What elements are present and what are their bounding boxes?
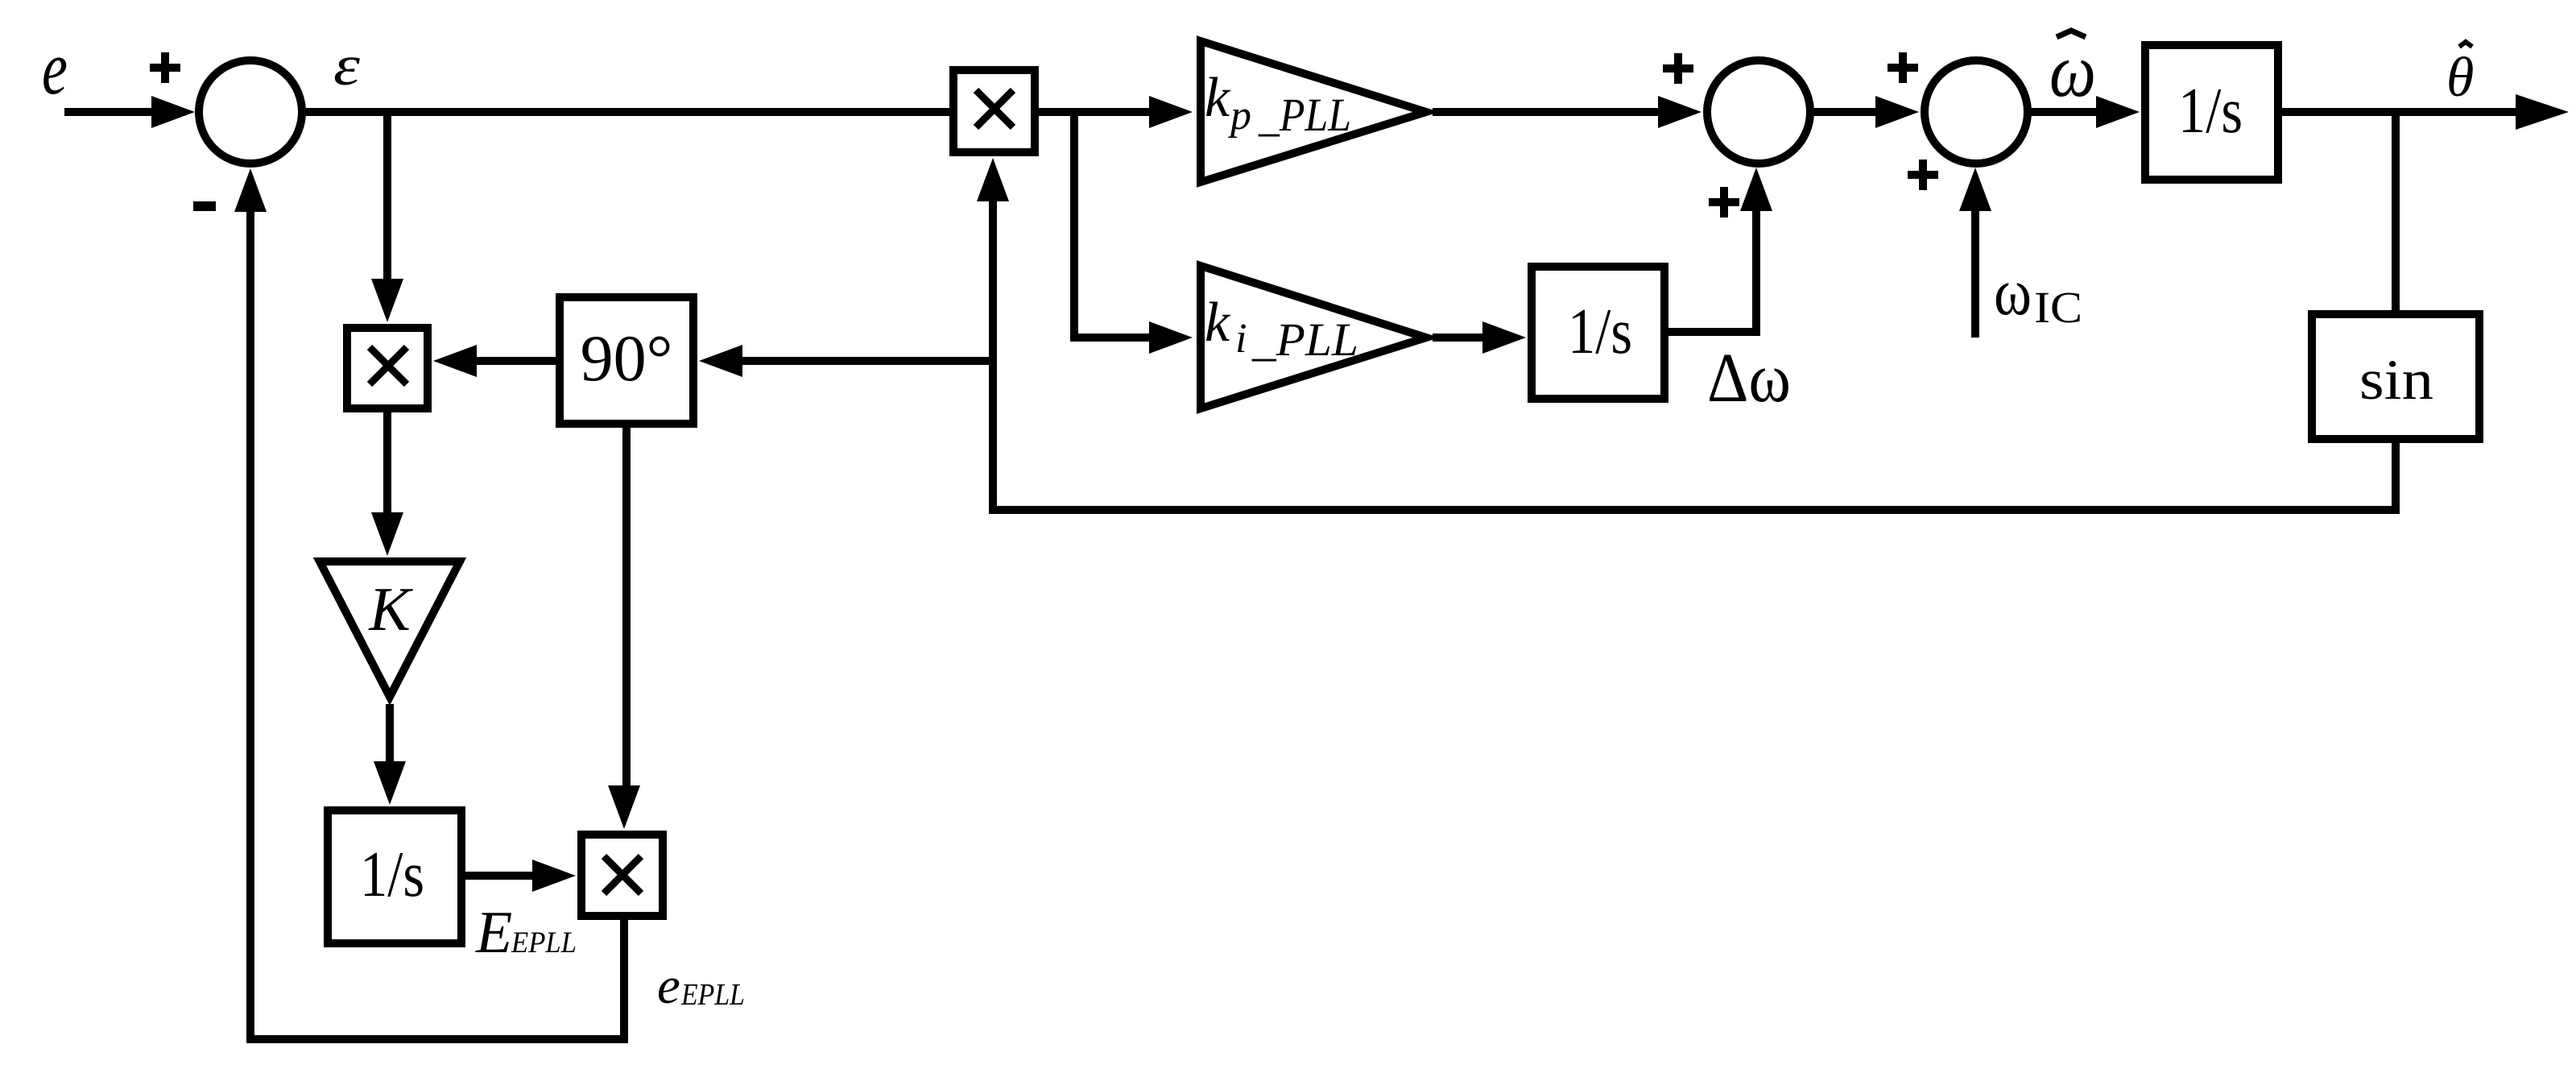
wire: I2 output up to S2 bottom [1667, 206, 1756, 332]
wire: epsilon branch down to multiplier M2 [383, 112, 391, 284]
wire: epsilon main line from S1 to multiplier M1 [302, 108, 953, 116]
svg-text:_PLL: _PLL [1251, 313, 1358, 366]
label: minus sign at S1 bottom input [193, 201, 216, 211]
multiplier M3 [581, 835, 663, 916]
label: plus sign at S1 top input [150, 52, 180, 83]
svg-text:EPLL: EPLL [511, 926, 577, 959]
node: arrowhead into M1 bottom [977, 158, 1009, 201]
svg-text:e: e [657, 957, 680, 1015]
gain K triangle [320, 561, 460, 697]
node: arrowhead into S1 bottom [234, 168, 267, 212]
label: plus sign at S2 bottom input [1709, 187, 1739, 218]
summing junction S1 [199, 60, 302, 164]
summing junction S2 [1707, 60, 1810, 164]
svg-text:E: E [475, 900, 512, 966]
node: arrowhead into I1 left [2096, 96, 2140, 128]
integrator I3 box 1/s [328, 810, 461, 943]
node: input arrowhead into summing junction S1 [151, 96, 195, 128]
multiplier M1 [953, 70, 1035, 152]
wire: omega_IC input up to S3 bottom [1971, 206, 1979, 338]
svg-text:θ: θ [2446, 47, 2474, 109]
svg-text:ω: ω [1994, 255, 2032, 329]
node: arrowhead into M3 left [532, 860, 576, 892]
gain kp_PLL triangle [1201, 41, 1426, 182]
label: multiply cross of M2 [370, 347, 407, 384]
node: arrowhead into S2 left [1658, 96, 1701, 128]
svg-text:sin: sin [2359, 349, 2433, 412]
wire: sin loop from sin box bottom up into M1 [993, 197, 2396, 510]
svg-text:Δω: Δω [1707, 338, 1791, 416]
wire: feedback from M3 down along bottom and up to S1 minus input [250, 207, 624, 1039]
label: hat over omega [2057, 31, 2086, 37]
wire: 90-deg block down to M3 [622, 426, 631, 790]
wire: K to integrator I3 [386, 704, 394, 766]
label: plus sign at S3 bottom input [1908, 160, 1938, 190]
wire: ki output to integrator I2 [1433, 334, 1487, 342]
svg-text:i: i [1235, 316, 1247, 362]
svg-text:1/s: 1/s [2178, 76, 2243, 147]
svg-text:e: e [42, 27, 68, 110]
node: arrowhead into M3 top [608, 785, 640, 829]
svg-text:ω: ω [2049, 29, 2096, 113]
label: kp_PLL [1205, 67, 1351, 141]
label: plus sign at S2 left input [1663, 53, 1693, 84]
wire: S3 to integrator I1 [2028, 108, 2101, 116]
label: omega_IC [1994, 255, 2082, 332]
wire: 90-deg block output to M2 [472, 357, 560, 365]
svg-text:p: p [1227, 93, 1251, 139]
multiplier M2 [347, 328, 428, 408]
node: arrowhead into M2 top [371, 279, 403, 322]
label: multiply cross of M3 [604, 856, 641, 893]
label: theta hat [2446, 47, 2474, 109]
node: arrowhead into I2 left [1482, 321, 1526, 354]
svg-text:k: k [1205, 292, 1231, 354]
node: arrowhead into gain kp [1149, 96, 1193, 128]
wire: S2 to S3 [1811, 108, 1880, 116]
label: e_EPLL [657, 957, 745, 1015]
wire: I3 to multiplier M3 [464, 872, 537, 880]
node: arrowhead into 90-deg block right [699, 345, 742, 377]
node: arrowhead into gain ki [1149, 321, 1193, 354]
svg-text:90°: 90° [581, 321, 673, 395]
node: arrowhead into S3 bottom [1959, 168, 1991, 211]
summing junction S3 [1925, 60, 2028, 164]
block: 90 degree phase shift [560, 297, 693, 424]
wire: M1 output to gain kp [1037, 108, 1154, 116]
node: arrowhead into integrator I3 [374, 761, 406, 805]
svg-text:1/s: 1/s [1568, 296, 1632, 367]
wire: sin feedback into 90-deg block [738, 357, 993, 365]
svg-text:EPLL: EPLL [680, 978, 745, 1012]
svg-text:IC: IC [2034, 283, 2082, 332]
label: ki_PLL [1205, 292, 1358, 366]
label: E_EPLL [475, 900, 577, 966]
label: plus sign at S3 left input [1888, 52, 1918, 83]
integrator I2 box 1/s [1532, 267, 1664, 399]
label: multiply cross of M1 [976, 90, 1013, 127]
node: arrowhead into S2 bottom [1740, 168, 1772, 211]
svg-text:k: k [1205, 67, 1231, 129]
label: hat over theta [2459, 42, 2472, 47]
svg-text:1/s: 1/s [360, 839, 424, 910]
node: output arrowhead at right edge [2516, 94, 2569, 130]
wire: kp output to summing junction S2 [1433, 108, 1663, 116]
node: arrowhead into M2 right [433, 345, 477, 377]
wire: theta-hat branch down into sin block [2392, 112, 2400, 312]
node: arrowhead into S3 left [1875, 96, 1919, 128]
svg-text:ε: ε [333, 35, 360, 97]
wire: M2 down to gain K [383, 411, 391, 517]
node: arrowhead into gain K [371, 512, 403, 556]
gain ki_PLL triangle [1201, 266, 1426, 408]
wire: input e line [64, 108, 157, 116]
integrator I1 box 1/s [2145, 45, 2278, 180]
wire: branch down to gain ki [1074, 112, 1154, 338]
svg-text:K: K [368, 574, 413, 644]
label: omega hat [2049, 29, 2096, 113]
block: sin function [2312, 314, 2479, 439]
wire: I1 output theta-hat line to the right edge [2280, 108, 2522, 116]
svg-text:_PLL: _PLL [1258, 89, 1351, 141]
